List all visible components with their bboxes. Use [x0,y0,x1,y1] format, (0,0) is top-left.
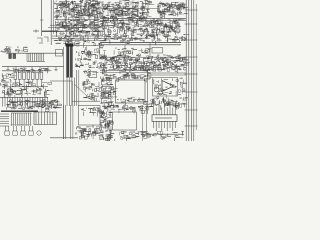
text block box [79,106,101,126]
connector comb lower [3,97,48,106]
cluster above cable [54,33,102,48]
wire horizontal [100,8,160,10]
cluster right of cable [76,46,104,60]
wire horizontal bus pair [100,17,186,19]
labels in box [81,107,103,117]
connector comb pins [27,53,45,61]
wire horizontal [50,24,100,26]
transistor Q4 [168,62,172,66]
component cluster upper tuner section [54,0,103,21]
wire right bus line 3 [190,0,192,141]
wire vertical drop [149,43,151,56]
wire vertical drop [124,45,126,70]
parts inside amp box [154,79,177,99]
transistor Q3 [156,61,160,65]
label column [100,105,115,142]
component cluster center [83,69,103,101]
component cluster mid right [150,55,190,74]
terminal ladder [0,114,9,126]
component cluster mid center [100,54,154,74]
shield box outline [50,81,72,105]
wire vertical [146,105,148,134]
wire vertical pair right of cable [76,70,78,106]
wire horizontal [52,35,103,37]
wire horizontal heavy [42,30,58,32]
small box [89,72,97,78]
cluster right of cable lower [75,58,105,69]
wire horizontal [72,100,100,102]
op-amp U1 triangle [162,81,174,92]
parts inside box [116,97,148,105]
transistor Q2 [159,91,163,95]
wire horizontal rail [0,96,48,98]
label row mid center [100,73,152,83]
component cluster IF section [99,0,154,36]
IC pins top [154,102,176,115]
connector boxes column [102,81,112,103]
connector comb block 1 [11,113,32,125]
wire horizontal from cable [73,45,104,47]
wire horizontal rail lower [2,66,64,68]
alignment box outline [113,112,137,130]
parts right of amp [176,78,187,95]
component cluster row [55,19,103,37]
parts row mid [0,82,52,92]
label row [103,48,151,56]
wire right bus line 2 [188,0,190,141]
label row above caps [13,68,52,74]
terminal box label [152,48,163,54]
diagonal wire [74,84,87,96]
wire horizontal pair [100,69,150,71]
wire horizontal pair right [150,72,186,74]
shielded cable bar left [66,45,69,78]
label bracket glyphs [37,37,48,43]
electrolytic capacitor row C array [14,72,43,86]
component cluster top right [157,2,188,19]
wire horizontal [55,19,100,21]
connector comb block 2 [34,112,57,125]
wire horizontal in parts row [8,101,58,103]
dense legend text [75,126,103,140]
relay box [56,50,63,57]
small caps row [2,47,28,54]
part number text row [152,131,184,142]
wire horizontal [100,56,186,58]
wire horizontal bottom [50,137,78,139]
labels above IC [146,99,187,110]
wire right bus line 5 [195,4,197,130]
wire right bus line 4 [193,0,195,141]
ground symbols row [6,67,57,71]
wire horizontal under IC [145,133,184,135]
node tick on feed line [40,19,44,21]
wire vertical feed line [41,0,43,36]
wire horizontal main bus pair [100,42,181,44]
wire vertical [63,47,65,139]
component cluster diodes [2,88,53,99]
wire verticals in IF block [103,0,148,21]
wire heavy horizontal [1,110,38,112]
shielded cable bar right [70,45,73,78]
IC pins bottom [154,121,176,131]
wire horizontal mid rail [2,86,48,88]
wire horizontal [55,39,103,41]
terminal labels [1,47,12,52]
transistor Q1 [154,87,159,92]
label 4Q arrow [33,30,39,33]
wire vertical pair [70,105,72,139]
wire horizontal top of block [2,70,50,72]
wire horizontal [48,27,100,29]
IC U101 DIP package [152,115,177,122]
bottom component row [5,126,41,135]
wire vertical bus left of block [50,0,52,45]
wire horizontal rail [6,52,64,54]
capacitor cluster box [158,4,170,12]
parts row bottom [115,131,151,142]
cable top connector dark cap [66,43,74,46]
paper background [0,0,200,141]
cable continuation wires [67,78,74,107]
wire vertical [146,70,148,114]
label row above bus [102,33,189,45]
wire verticals in tuner block [57,3,97,19]
wire horizontal [52,37,150,39]
component cluster below amp [152,96,188,108]
wire vertical drops from top bus [58,19,178,35]
left edge labels [1,73,17,88]
connector label column [100,74,118,108]
bus junction ticks [185,10,198,126]
wire right bus line 1 [185,0,187,141]
top label row [113,105,151,114]
wire vertical [142,105,144,141]
dense parts row [6,99,61,111]
big shield box outline [116,80,146,103]
amplifier box outline [153,78,178,97]
component cluster oscillator [149,19,185,35]
resistor block R array [9,54,12,59]
IC label text [155,117,172,119]
wire vertical pair lower left [63,105,65,139]
